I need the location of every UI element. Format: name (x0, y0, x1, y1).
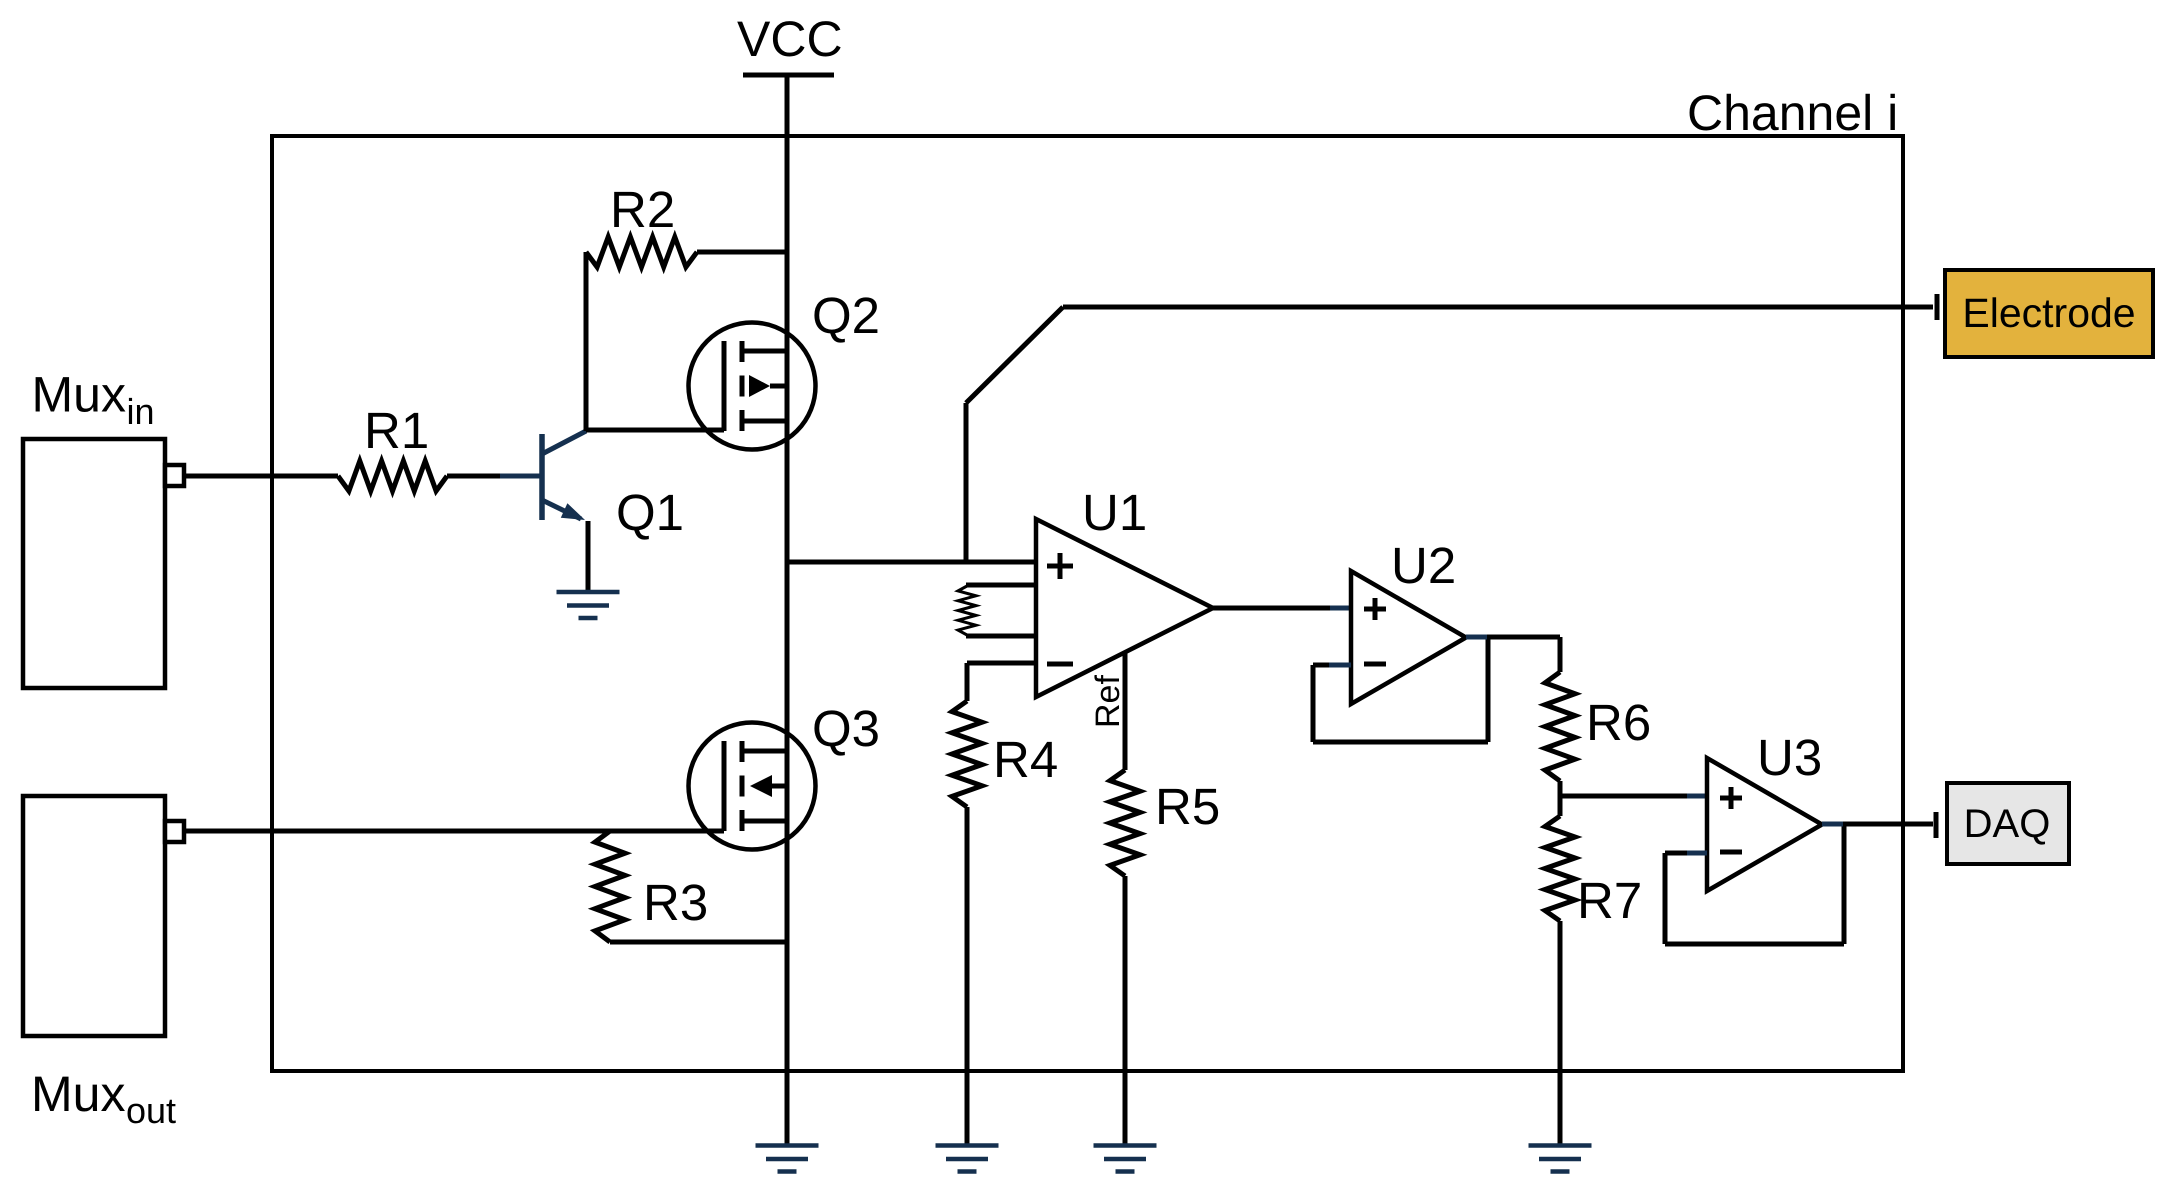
wire R1 to Q1 base (447, 474, 500, 479)
svg-text:Q2: Q2 (812, 287, 880, 344)
wire Mux_out to Q3 gate (184, 829, 724, 834)
svg-text:R5: R5 (1155, 778, 1220, 835)
op-amp U1 (1036, 519, 1213, 697)
transistor Q3 (MOSFET) (689, 723, 816, 850)
wire Electrode to U1 + node (horizontal) (1063, 305, 1933, 310)
wire R6 to divider node (1558, 781, 1563, 796)
block Mux_in (23, 439, 165, 688)
wire U1 inverting input (967, 661, 1036, 666)
wire U3 feedback left vertical (1663, 853, 1668, 944)
pin connector DAQ (1934, 812, 1939, 838)
label Q1 (616, 484, 684, 541)
label Mux_out (31, 1066, 176, 1131)
svg-text:Ref: Ref (1089, 675, 1127, 728)
label Ref (1089, 675, 1127, 728)
svg-text:Q1: Q1 (616, 484, 684, 541)
svg-text:R2: R2 (610, 181, 675, 238)
wire U3 feedback right vertical (1842, 824, 1847, 944)
svg-text:U2: U2 (1391, 537, 1456, 594)
label R4 (993, 731, 1058, 788)
wire U2 output down to R6 (1558, 637, 1563, 672)
wire R2 to VCC rail (697, 250, 787, 255)
svg-text:R4: R4 (993, 731, 1058, 788)
wire Q2/Q3 node to U1 noninverting input (787, 560, 1036, 565)
wire U2 feedback bottom (1313, 740, 1488, 745)
label R5 (1155, 778, 1220, 835)
pin connector Mux_out (165, 821, 184, 842)
wire Electrode vertical to + node (964, 403, 969, 564)
label R3 (643, 874, 708, 931)
label Channel i (1687, 85, 1898, 141)
block Mux_out (23, 796, 165, 1036)
ground (R4) (936, 1146, 999, 1172)
resistor R7 (1545, 816, 1575, 921)
label VCC (737, 11, 843, 67)
pin connector Electrode (1935, 294, 1940, 320)
resistor R5 (1110, 770, 1140, 876)
pin Ref of U1 (1123, 652, 1128, 770)
wire U3 feedback bottom (1665, 942, 1844, 947)
label Mux_in (32, 367, 155, 433)
svg-text:out: out (126, 1090, 176, 1131)
label U3 (1757, 729, 1822, 786)
resistor R2 (586, 237, 697, 267)
svg-text:in: in (127, 391, 155, 432)
svg-text:Mux: Mux (31, 1066, 125, 1122)
label R7 (1577, 872, 1642, 929)
ground (Q1 emitter) (557, 592, 620, 618)
wire U2 inverting input stub (1313, 663, 1351, 668)
ground (bottom of VCC rail) (756, 1146, 819, 1172)
svg-text:Electrode: Electrode (1962, 290, 2135, 336)
ground (R5) (1094, 1146, 1157, 1172)
op-amp U2 (1351, 571, 1466, 704)
wire U3 inverting input stub (1665, 851, 1707, 856)
wire R3 to Q3 source (610, 940, 787, 945)
wire Q1 emitter to ground (586, 521, 591, 592)
svg-text:R6: R6 (1586, 694, 1651, 751)
wire VCC rail (main vertical) (785, 75, 790, 1146)
svg-text:Q3: Q3 (812, 700, 880, 757)
wire U1 output to U2 + (1213, 606, 1351, 611)
svg-text:R1: R1 (364, 402, 429, 459)
label Electrode (1962, 290, 2135, 336)
wire divider node to U3 + (1560, 794, 1707, 799)
wire Electrode bend (diagonal) (966, 307, 1063, 403)
svg-text:R7: R7 (1577, 872, 1642, 929)
wire Mux_in to R1 (184, 474, 338, 479)
resistor RG stubs at U1 input (958, 585, 1036, 636)
label Q3 (812, 700, 880, 757)
wire Q1 collector vertical to R2 (584, 252, 589, 431)
resistor R6 (1545, 672, 1575, 781)
label U2 (1391, 537, 1456, 594)
block Electrode (1945, 270, 2153, 357)
pin connector Mux_in (165, 465, 184, 486)
transistor Q1 (NPN BJT) (500, 431, 586, 520)
VCC power symbol (743, 73, 834, 78)
wire Q1 collector to Q2 gate (586, 428, 724, 433)
svg-text:U3: U3 (1757, 729, 1822, 786)
label R6 (1586, 694, 1651, 751)
svg-text:Mux: Mux (32, 367, 126, 423)
ground (R7) (1529, 1146, 1592, 1172)
channel box (Channel i) (272, 136, 1903, 1071)
wire U3 output to DAQ (1822, 822, 1933, 827)
transistor Q2 (MOSFET) (689, 323, 816, 450)
wire R4 to ground (965, 807, 970, 1146)
op-amp U3 (1707, 758, 1822, 891)
svg-text:VCC: VCC (737, 11, 843, 67)
wire R5 to ground (1123, 876, 1128, 1146)
label R2 (610, 181, 675, 238)
label R1 (364, 402, 429, 459)
label U1 (1082, 484, 1147, 541)
resistor R3 (595, 831, 625, 942)
wire U2 feedback left vertical (1311, 665, 1316, 742)
svg-text:R3: R3 (643, 874, 708, 931)
wire R7 to ground (1558, 921, 1563, 1146)
wire U2 output (1466, 635, 1560, 640)
wire U1 inverting to R4 (965, 663, 970, 701)
svg-text:U1: U1 (1082, 484, 1147, 541)
resistor R4 (952, 701, 982, 807)
wire U2 feedback right vertical (1486, 637, 1491, 742)
svg-text:Channel i: Channel i (1687, 85, 1898, 141)
wire divider node to R7 (1558, 796, 1563, 816)
block DAQ (1947, 783, 2069, 864)
resistor R1 (338, 461, 447, 491)
label DAQ (1964, 802, 2051, 846)
svg-text:DAQ: DAQ (1964, 802, 2051, 846)
label Q2 (812, 287, 880, 344)
